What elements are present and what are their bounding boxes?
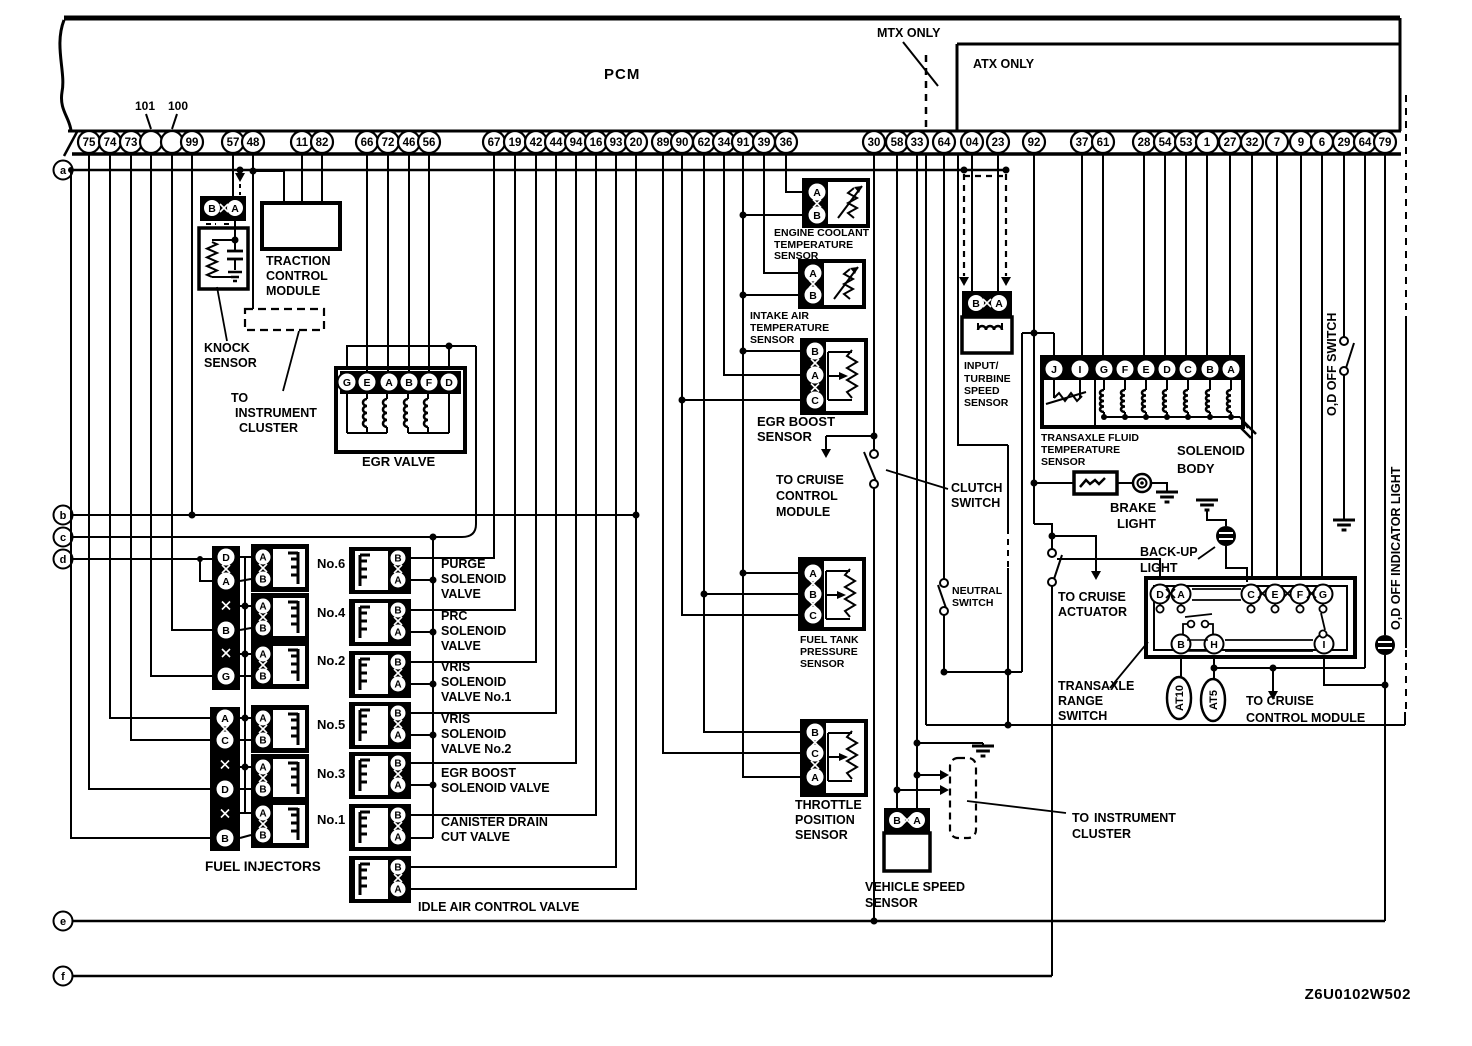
pin 44 — [545, 131, 567, 153]
svg-text:INPUT/: INPUT/ — [964, 360, 999, 372]
svg-text:CLUSTER: CLUSTER — [239, 421, 298, 435]
svg-text:42: 42 — [530, 137, 543, 149]
svg-text:SENSOR: SENSOR — [750, 334, 795, 346]
svg-text:PRC: PRC — [441, 609, 467, 623]
svg-text:C: C — [809, 610, 817, 622]
range switch contacts — [1159, 603, 1161, 605]
svg-text:AT5: AT5 — [1208, 690, 1220, 710]
valve B wires to pins — [411, 154, 494, 558]
O/D off switch — [1340, 337, 1348, 345]
svg-text:PURGE: PURGE — [441, 557, 485, 571]
svg-text:6: 6 — [1319, 137, 1325, 149]
wire d rail — [73, 558, 212, 560]
wire pin90 to FTP C and EGR boost C — [682, 154, 800, 615]
node d — [54, 550, 73, 569]
svg-text:11: 11 — [296, 137, 309, 149]
pin 82 — [311, 131, 333, 153]
range switch terminal D — [1151, 585, 1170, 604]
intake air temperature sensor — [800, 261, 864, 307]
pin 99 — [181, 131, 203, 153]
svg-text:MODULE: MODULE — [266, 284, 320, 298]
range switch terminal F — [1291, 585, 1310, 604]
pin 04 — [961, 131, 983, 153]
wire pin46 to EGR B — [408, 154, 410, 372]
svg-text:O,D OFF SWITCH: O,D OFF SWITCH — [1325, 313, 1339, 416]
svg-text:TO CRUISE: TO CRUISE — [1246, 694, 1314, 708]
brake light wire — [1034, 482, 1074, 484]
vehicle speed sensor — [884, 808, 930, 833]
svg-text:H: H — [1210, 639, 1218, 651]
transaxle range switch box — [1146, 578, 1355, 657]
svg-text:e: e — [60, 916, 66, 928]
svg-text:B: B — [259, 785, 266, 796]
svg-text:D: D — [1163, 364, 1171, 376]
dashed to-instrument-cluster box — [245, 309, 324, 330]
arrows to instrument cluster dashes — [914, 772, 921, 779]
svg-text:G: G — [222, 671, 230, 683]
svg-text:A: A — [394, 885, 401, 896]
svg-text:74: 74 — [104, 137, 117, 149]
svg-text:SPEED: SPEED — [964, 385, 1000, 397]
svg-text:IDLE AIR CONTROL VALVE: IDLE AIR CONTROL VALVE — [418, 900, 579, 914]
transaxle fluid temperature thermistor — [1053, 379, 1055, 398]
svg-text:ENGINE COOLANT: ENGINE COOLANT — [774, 227, 870, 239]
VRIS1 body — [349, 651, 411, 698]
engine coolant temperature sensor — [804, 180, 868, 226]
pin 30 — [863, 131, 885, 153]
svg-text:CLUSTER: CLUSTER — [1072, 827, 1131, 841]
svg-text:CONTROL MODULE: CONTROL MODULE — [1246, 711, 1365, 725]
svg-text:INSTRUMENT: INSTRUMENT — [235, 406, 317, 420]
svg-text:C: C — [811, 395, 819, 407]
svg-text:B: B — [394, 863, 401, 874]
wire pin7 to range switch E — [1276, 154, 1278, 580]
knock connector lower dash — [206, 223, 216, 225]
pin 39 — [753, 131, 775, 153]
pin 19 — [504, 131, 526, 153]
svg-text:A: A — [222, 576, 230, 588]
wire e rail — [72, 920, 1385, 922]
svg-text:B: B — [893, 815, 901, 827]
pin 27 — [1219, 131, 1241, 153]
svg-text:B: B — [208, 203, 216, 215]
svg-text:A: A — [259, 553, 266, 564]
node f — [54, 967, 73, 986]
wire pin11 to traction module — [301, 154, 303, 203]
svg-text:B: B — [221, 833, 229, 845]
svg-text:B: B — [259, 575, 266, 586]
dashed right edge wire — [1405, 650, 1407, 712]
svg-text:J: J — [1051, 364, 1057, 376]
wire 333 link to solenoid body J — [1022, 332, 1054, 334]
wire 725 horizontal to dashed right — [926, 724, 1405, 726]
pin 90 — [671, 131, 693, 153]
AT10 connector oval — [1180, 657, 1182, 678]
svg-text:ACTUATOR: ACTUATOR — [1058, 605, 1127, 619]
pin 94 — [565, 131, 587, 153]
svg-text:A: A — [394, 781, 401, 792]
svg-text:THROTTLE: THROTTLE — [795, 798, 862, 812]
solenoid valve A common vertical — [432, 537, 434, 838]
svg-text:B: B — [259, 736, 266, 747]
svg-text:82: 82 — [316, 137, 329, 149]
svg-text:CLUTCH: CLUTCH — [951, 481, 1002, 495]
PRC body — [349, 599, 411, 646]
svg-text:E: E — [1142, 364, 1149, 376]
wires pins to solenoid body — [1081, 154, 1083, 357]
pin 57 — [222, 131, 244, 153]
O/D off indicator light lamp — [1375, 635, 1395, 655]
svg-text:A: A — [231, 203, 239, 215]
VRIS2 body — [349, 702, 411, 749]
svg-text:B: B — [809, 589, 817, 601]
wire pin91 sensor return — [743, 154, 802, 777]
wire 672 horizontal — [944, 671, 1022, 673]
wire pin100 to injector strip1 B — [172, 154, 212, 630]
EGR boost sensor — [802, 340, 866, 413]
svg-text:23: 23 — [992, 137, 1005, 149]
input/turbine speed sensor — [962, 291, 1012, 317]
fuel injector No.3 — [251, 754, 309, 802]
IDLE body — [349, 856, 411, 903]
svg-text:89: 89 — [657, 137, 670, 149]
wire d-branch to strip1 A — [200, 559, 212, 581]
pin 46 — [398, 131, 420, 153]
ATX ONLY box — [956, 44, 959, 131]
svg-text:ATX ONLY: ATX ONLY — [973, 57, 1035, 71]
svg-text:FUEL INJECTORS: FUEL INJECTORS — [205, 859, 321, 874]
wire pin66 to EGR E — [366, 154, 368, 372]
svg-text:KNOCK: KNOCK — [204, 341, 250, 355]
svg-text:F: F — [426, 377, 433, 389]
pin 67 — [483, 131, 505, 153]
svg-text:BACK-UP: BACK-UP — [1140, 545, 1198, 559]
svg-text:37: 37 — [1076, 137, 1089, 149]
svg-text:No.6: No.6 — [317, 556, 345, 571]
wire pin32 to range switch C — [1251, 154, 1253, 580]
pin 9 — [1290, 131, 1312, 153]
svg-text:53: 53 — [1180, 137, 1193, 149]
wire pin56 to EGR F — [428, 154, 430, 372]
node b — [54, 506, 73, 525]
dashed instrument cluster box (speedometer) — [950, 758, 976, 838]
knock sensor body — [199, 228, 248, 289]
wire H to pin64b — [1214, 667, 1365, 669]
svg-text:B: B — [394, 606, 401, 617]
svg-text:58: 58 — [891, 137, 904, 149]
svg-text:16: 16 — [590, 137, 603, 149]
svg-text:SENSOR: SENSOR — [795, 828, 848, 842]
svg-text:TRANSAXLE FLUID: TRANSAXLE FLUID — [1041, 432, 1139, 444]
svg-text:B: B — [405, 377, 413, 389]
EGR valve body — [336, 368, 465, 452]
wire pin89 to TPS C — [663, 154, 802, 753]
knock sensor capacitor — [234, 240, 236, 251]
svg-text:93: 93 — [610, 137, 623, 149]
svg-text:TO: TO — [1072, 811, 1089, 825]
svg-text:D: D — [222, 552, 230, 564]
svg-text:G: G — [1319, 589, 1327, 601]
wire pin82 to traction module — [321, 154, 323, 203]
wire I to indicator lamp node — [1324, 657, 1385, 685]
svg-text:B: B — [394, 759, 401, 770]
clutch switch — [870, 450, 878, 458]
svg-text:A: A — [995, 298, 1003, 310]
to cruise control module arrow (right) — [1270, 665, 1277, 672]
pin 64 — [1354, 131, 1376, 153]
wire b rail — [73, 514, 636, 516]
pin 75 — [78, 131, 100, 153]
brake light ground — [1151, 483, 1167, 491]
fuel injector No.6 — [251, 544, 309, 592]
svg-text:19: 19 — [509, 137, 522, 149]
svg-text:CONTROL: CONTROL — [776, 489, 838, 503]
pin unlabeled — [161, 131, 183, 153]
wire pin75 to injector strip2 D — [89, 154, 210, 789]
pin 33 — [906, 131, 928, 153]
AT5 connector oval — [1213, 657, 1215, 680]
svg-text:FUEL TANK: FUEL TANK — [800, 634, 859, 646]
svg-text:Z6U0102W502: Z6U0102W502 — [1305, 986, 1411, 1003]
to cruise control module arrow — [826, 435, 874, 437]
svg-text:C: C — [221, 735, 229, 747]
knock sensor internal ground — [228, 271, 242, 274]
svg-text:CANISTER DRAIN: CANISTER DRAIN — [441, 815, 548, 829]
pin 64 — [933, 131, 955, 153]
pin 56 — [418, 131, 440, 153]
svg-text:SOLENOID: SOLENOID — [441, 675, 506, 689]
traction control module box — [262, 203, 340, 249]
wire pin23 to input/turbine A — [997, 154, 999, 292]
svg-text:101: 101 — [135, 99, 155, 113]
svg-text:B: B — [222, 625, 230, 637]
wire neutral switch down — [943, 614, 945, 672]
svg-text:20: 20 — [630, 137, 643, 149]
svg-text:PRESSURE: PRESSURE — [800, 646, 858, 658]
VSS ground branch — [914, 740, 921, 747]
pin 66 — [356, 131, 378, 153]
EGR valve link down to c-common — [433, 346, 476, 537]
svg-text:INSTRUMENT: INSTRUMENT — [1094, 811, 1176, 825]
svg-text:B: B — [811, 727, 819, 739]
svg-text:TO: TO — [231, 391, 248, 405]
wire pin48 drop — [252, 154, 254, 309]
wire pin92 to cruise actuator switch — [1034, 524, 1052, 549]
svg-text:75: 75 — [83, 137, 96, 149]
svg-text:VEHICLE SPEED: VEHICLE SPEED — [865, 880, 965, 894]
svg-text:67: 67 — [488, 137, 501, 149]
wire pin30 drop — [873, 154, 875, 450]
svg-text:SENSOR: SENSOR — [1041, 456, 1086, 468]
pin 93 — [605, 131, 627, 153]
pin 53 — [1175, 131, 1197, 153]
pin 6 — [1311, 131, 1333, 153]
svg-text:SENSOR: SENSOR — [757, 429, 813, 444]
svg-text:30: 30 — [868, 137, 881, 149]
injector A common wire — [244, 557, 246, 813]
O/D off switch ground wire — [1343, 375, 1345, 519]
wire pin74 to injector strip2 A — [110, 154, 210, 718]
svg-text:B: B — [259, 831, 266, 842]
pin 36 — [775, 131, 797, 153]
knock sensor resistor — [207, 242, 217, 277]
pin 74 — [99, 131, 121, 153]
svg-text:PCM: PCM — [604, 66, 640, 83]
to cruise actuator arrow — [1052, 536, 1096, 572]
pin 61 — [1092, 131, 1114, 153]
svg-text:62: 62 — [698, 137, 711, 149]
pin 23 — [987, 131, 1009, 153]
svg-text:SENSOR: SENSOR — [800, 658, 845, 670]
range switch top bus lines — [1192, 588, 1241, 590]
svg-text:SENSOR: SENSOR — [964, 397, 1009, 409]
pin 16 — [585, 131, 607, 153]
back-up light lamp — [1216, 526, 1236, 546]
svg-text:B: B — [972, 298, 980, 310]
svg-text:a: a — [60, 165, 67, 177]
wire a-branch to injector strip2 B — [71, 170, 210, 838]
wire a rail — [73, 169, 1006, 171]
wire ATX edge drop to 1008 — [958, 154, 1008, 445]
svg-text:F: F — [1297, 589, 1304, 601]
svg-text:A: A — [813, 187, 821, 199]
wire pin36 to ECT A — [786, 154, 804, 192]
wire pin29 to O/D off switch — [1343, 154, 1345, 337]
fuel injector No.1 — [251, 800, 309, 848]
svg-text:B: B — [394, 554, 401, 565]
svg-text:TRACTION: TRACTION — [266, 254, 331, 268]
svg-text:TO CRUISE: TO CRUISE — [776, 473, 844, 487]
svg-text:39: 39 — [758, 137, 771, 149]
range switch terminal G — [1314, 585, 1333, 604]
svg-text:SOLENOID: SOLENOID — [441, 572, 506, 586]
svg-text:B: B — [259, 672, 266, 683]
svg-text:SOLENOID: SOLENOID — [441, 727, 506, 741]
svg-text:c: c — [60, 532, 66, 544]
brake light lamp — [1117, 482, 1133, 484]
svg-text:66: 66 — [361, 137, 374, 149]
PCM connector band — [68, 130, 1401, 133]
svg-text:SENSOR: SENSOR — [865, 896, 918, 910]
svg-text:E: E — [1271, 589, 1278, 601]
svg-text:EGR VALVE: EGR VALVE — [362, 454, 436, 469]
CANISTER body — [349, 804, 411, 851]
pin 91 — [732, 131, 754, 153]
svg-text:TRANSAXLE: TRANSAXLE — [1058, 679, 1134, 693]
svg-text:A: A — [259, 602, 266, 613]
wire pin57 to knock sensor connector A — [232, 154, 234, 196]
svg-text:G: G — [1100, 364, 1108, 376]
svg-text:CONTROL: CONTROL — [266, 269, 328, 283]
svg-text:SENSOR: SENSOR — [204, 356, 257, 370]
wire pin64 to neutral switch — [943, 154, 945, 579]
pin 42 — [525, 131, 547, 153]
svg-text:CUT VALVE: CUT VALVE — [441, 830, 510, 844]
svg-text:A: A — [394, 576, 401, 587]
svg-text:44: 44 — [550, 137, 563, 149]
pin 37 — [1071, 131, 1093, 153]
knock sensor connector B A — [200, 196, 246, 221]
svg-text:f: f — [61, 971, 65, 983]
svg-text:SWITCH: SWITCH — [1058, 709, 1107, 723]
svg-text:27: 27 — [1224, 137, 1237, 149]
svg-text:A: A — [809, 268, 817, 280]
range switch terminal B — [1172, 635, 1191, 654]
svg-text:G: G — [343, 377, 351, 389]
svg-text:61: 61 — [1097, 137, 1110, 149]
range switch G-I selector — [1319, 630, 1326, 637]
svg-text:SWITCH: SWITCH — [951, 496, 1000, 510]
pin 7 — [1266, 131, 1288, 153]
wire pin73 to injector strip2 C — [131, 154, 210, 740]
wire pin58 to VSS B — [896, 154, 898, 810]
svg-text:91: 91 — [737, 137, 750, 149]
wire pin72 to EGR A — [387, 154, 389, 372]
svg-text:EGR BOOST: EGR BOOST — [757, 414, 835, 429]
svg-text:O,D OFF INDICATOR LIGHT: O,D OFF INDICATOR LIGHT — [1389, 466, 1403, 630]
svg-text:No.4: No.4 — [317, 605, 346, 620]
svg-text:B: B — [394, 658, 401, 669]
idle air valve A wire to pin20/b — [411, 154, 636, 889]
pin 48 — [242, 131, 264, 153]
wire pin39 to IAT A — [764, 154, 800, 273]
svg-text:MTX ONLY: MTX ONLY — [877, 26, 941, 40]
svg-text:I: I — [1079, 364, 1082, 376]
pin 1 — [1196, 131, 1218, 153]
svg-text:A: A — [913, 815, 921, 827]
fuel injector strip 2 — [210, 707, 240, 851]
wire pin101 to injector strip1 G — [151, 154, 212, 676]
dashed MTX alternative wires — [961, 167, 968, 174]
svg-text:B: B — [1206, 364, 1214, 376]
EGR valve coils — [366, 392, 368, 399]
svg-text:POSITION: POSITION — [795, 813, 855, 827]
svg-text:A: A — [1177, 589, 1185, 601]
svg-text:36: 36 — [780, 137, 793, 149]
svg-text:54: 54 — [1159, 137, 1172, 149]
svg-text:F: F — [1122, 364, 1129, 376]
wire pin79 drop — [1384, 154, 1386, 635]
svg-text:57: 57 — [227, 137, 240, 149]
svg-text:90: 90 — [676, 137, 689, 149]
svg-text:VRIS: VRIS — [441, 712, 470, 726]
svg-text:9: 9 — [1298, 137, 1304, 149]
wire f rail — [72, 975, 1052, 977]
wire pin9 to range switch F — [1300, 154, 1302, 580]
svg-text:No.2: No.2 — [317, 653, 345, 668]
pin 29 — [1333, 131, 1355, 153]
svg-text:94: 94 — [570, 137, 583, 149]
svg-text:EGR BOOST: EGR BOOST — [441, 766, 516, 780]
svg-text:32: 32 — [1246, 137, 1259, 149]
EGRBOOST body — [349, 752, 411, 799]
svg-text:TO CRUISE: TO CRUISE — [1058, 590, 1126, 604]
fuel injector No.2 — [251, 641, 309, 689]
fuel injector No.4 — [251, 593, 309, 641]
svg-text:A: A — [259, 809, 266, 820]
svg-text:56: 56 — [423, 137, 436, 149]
svg-text:46: 46 — [403, 137, 416, 149]
fuel tank pressure sensor — [800, 559, 864, 629]
pin 73 — [120, 131, 142, 153]
svg-text:B: B — [813, 210, 821, 222]
svg-text:TEMPERATURE: TEMPERATURE — [1041, 444, 1120, 456]
svg-text:INTAKE AIR: INTAKE AIR — [750, 310, 809, 322]
svg-text:B: B — [1177, 639, 1185, 651]
solenoid body coils — [1103, 380, 1105, 390]
svg-text:D: D — [445, 377, 453, 389]
svg-text:I: I — [1323, 639, 1326, 651]
